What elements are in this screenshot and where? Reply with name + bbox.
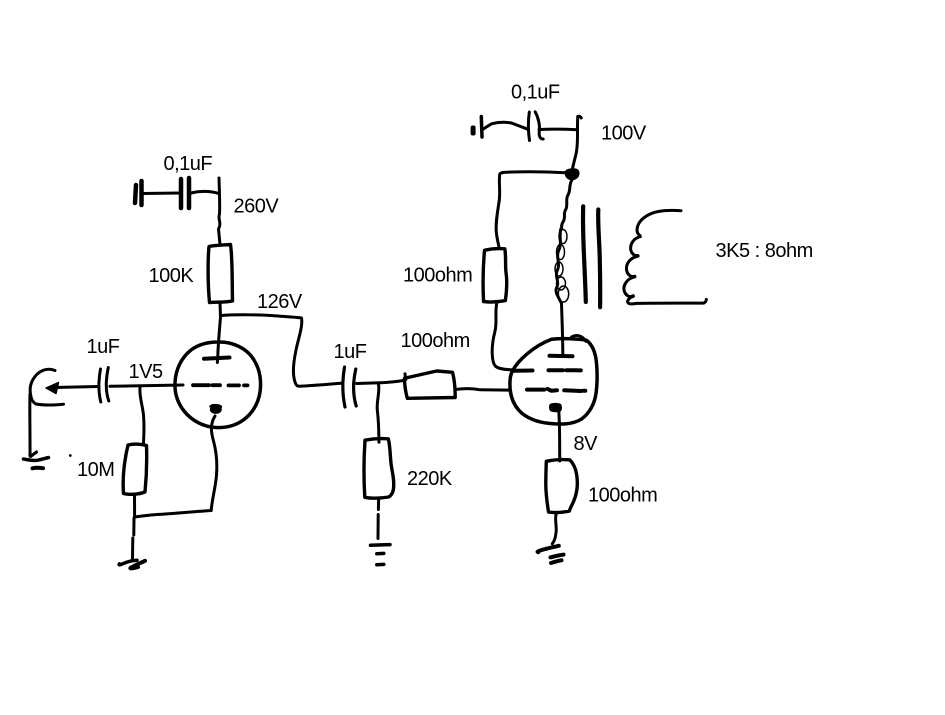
svg-text:100ohm: 100ohm	[401, 330, 470, 352]
svg-text:126V: 126V	[257, 291, 303, 313]
svg-text:260V: 260V	[234, 196, 280, 218]
svg-text:0,1uF: 0,1uF	[511, 82, 560, 104]
svg-text:3K5 : 8ohm: 3K5 : 8ohm	[716, 240, 813, 262]
svg-text:100V: 100V	[601, 123, 647, 145]
svg-text:100ohm: 100ohm	[588, 485, 657, 507]
svg-text:100ohm: 100ohm	[403, 264, 472, 286]
svg-text:100K: 100K	[149, 265, 195, 287]
svg-text:220K: 220K	[407, 468, 453, 490]
svg-text:10M: 10M	[77, 459, 114, 481]
svg-text:8V: 8V	[574, 433, 599, 455]
svg-text:1V5: 1V5	[129, 361, 163, 383]
svg-text:1uF: 1uF	[87, 336, 120, 358]
svg-text:1uF: 1uF	[334, 341, 367, 363]
svg-text:0,1uF: 0,1uF	[164, 153, 213, 175]
